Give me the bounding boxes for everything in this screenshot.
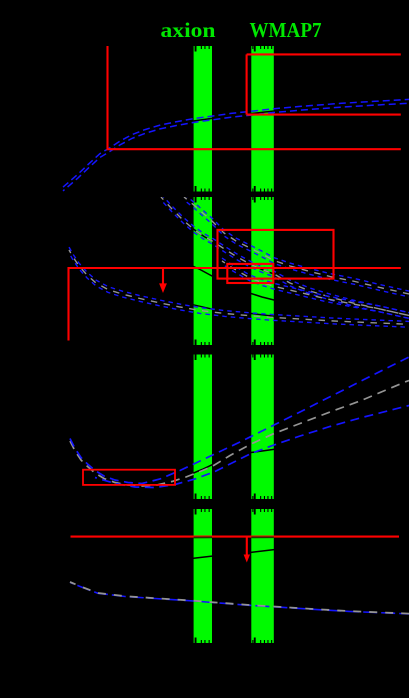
WMAP7 band segment panel 1 (green) [251, 46, 273, 192]
panel 2 bundle D lower blue dashed curve [222, 264, 409, 319]
panel 3 lower blue dashed curve [95, 406, 409, 488]
panel 2 small red rectangle [227, 264, 273, 283]
panel 1 red vertical limit line [106, 46, 108, 149]
panel 4 black curve segment under red line over WMAP7 band [251, 536, 273, 538]
panel 2 bundle A gray dashed curve [184, 197, 409, 294]
WMAP7 band segment panel 3 (green) [251, 355, 273, 500]
axion band segment panel 4 (green) [194, 509, 212, 643]
panel 4 black solid curve (visible over bands) [180, 547, 300, 559]
axion band segment panel 1 (green) [194, 46, 212, 192]
panel 2 bundle C gray dashed curve [69, 250, 409, 324]
panel 3 gray dashed center curve [70, 381, 409, 487]
panel 4 blue dashed curve [70, 582, 409, 614]
panel 3 black solid curve (visible over bands) [190, 449, 278, 475]
panel 2 lower black solid curve (visible over bands) [187, 264, 400, 316]
panel 1 red bracket top horizontal [247, 53, 401, 55]
axion band segment panel 3 (green) [194, 355, 212, 500]
panel 1 red bracket bottom horizontal [247, 114, 401, 116]
panel 2 bundle C black segment over axion band [190, 304, 213, 309]
svg-text:WMAP7: WMAP7 [250, 18, 322, 42]
svg-text:axion: axion [161, 18, 216, 42]
axion band segment panel 2 (green) [194, 197, 212, 345]
panel 2 bundle C upper blue dashed curve [69, 247, 409, 321]
panel 2 bundle B upper blue dashed curve [161, 194, 409, 313]
panel 4 black curve segment under red line over axion band [194, 536, 212, 538]
panel 2 bundle A lower blue dashed curve [184, 200, 409, 297]
panel 4 red downward arrow [246, 537, 248, 556]
panel 1 lower blue dashed curve [63, 103, 409, 191]
panel 2 large red rectangle [218, 230, 334, 279]
WMAP7 band segment panel 2 (green) [251, 197, 273, 345]
panel 1 long red horizontal limit line [107, 148, 401, 150]
panel 2 red vertical limit line [67, 267, 69, 341]
panel 2 long red horizontal limit line [69, 267, 401, 269]
panel 4 long red horizontal limit line [71, 536, 400, 538]
panel 2 bundle D upper blue dashed curve [222, 258, 409, 313]
panel 2 bundle A upper blue dashed curve [184, 194, 409, 291]
panel 2 bundle D gray dashed curve [222, 261, 409, 316]
x-axis tick notches over green bands (black) [195, 46, 273, 643]
panel 2 bundle B gray dashed curve [161, 197, 409, 316]
panel 2 bundle B black solid curve [161, 197, 409, 316]
panel 1 upper blue dashed curve [63, 99, 409, 187]
panel 2 red downward arrow [162, 268, 164, 285]
panel 3 upper blue dashed curve [70, 357, 409, 484]
panel 2 bundle B lower blue dashed curve [161, 200, 409, 319]
panel 2 bundle C black segment over WMAP7 band [251, 314, 274, 317]
panel 4 gray dashed curve [70, 582, 409, 614]
panel 2 bundle C lower blue dashed curve [69, 253, 409, 327]
WMAP7 band segment panel 4 (green) [251, 509, 273, 643]
panel 3 red rectangle [83, 470, 175, 485]
panel 1 red bracket vertical [246, 54, 248, 114]
panel 1 black solid curve (visible over bands) [63, 102, 409, 190]
